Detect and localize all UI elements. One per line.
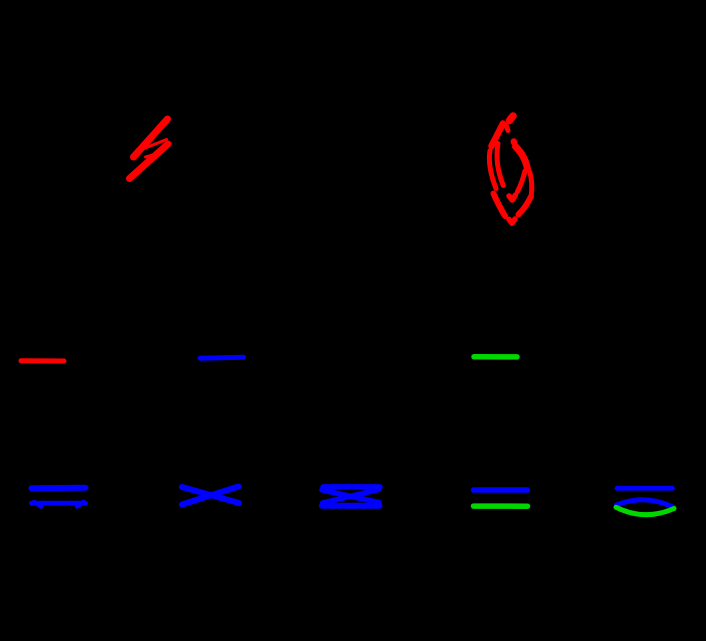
red flame/leaf scribble top-right: [489, 116, 531, 223]
red short line middle-left: [21, 358, 64, 363]
blue line over green line bottom fourth: [474, 490, 528, 506]
red zigzag scribble top-left: [130, 119, 169, 179]
blue Z-scribble bottom middle: [322, 487, 380, 506]
blue line with lens (blue upper arc, green lower arc) bottom far-right: [616, 488, 674, 514]
blue X cross bottom second: [182, 487, 239, 505]
blue double line with ticks bottom far-left: [32, 488, 86, 507]
green short line middle-right: [474, 354, 517, 360]
blue short line middle: [200, 357, 244, 358]
